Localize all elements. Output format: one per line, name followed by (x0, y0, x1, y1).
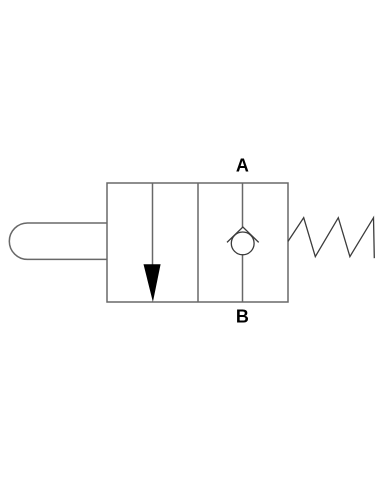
svg-text:B: B (236, 306, 249, 326)
svg-text:A: A (236, 155, 249, 175)
